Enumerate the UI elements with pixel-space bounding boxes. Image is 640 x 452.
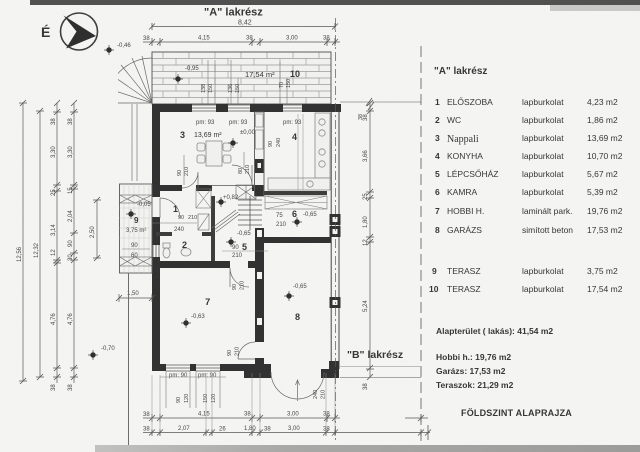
- terrace 9 outline: [120, 184, 153, 273]
- stair lower box: [198, 214, 209, 230]
- wc fixtures room2: [163, 243, 191, 258]
- wall north room3-4 segments: [152, 104, 341, 112]
- door arc room5 to room7: [230, 268, 249, 287]
- dim 2,50 left of plan: [90, 197, 101, 261]
- boundary dashed line right: [420, 46, 422, 445]
- terrace 9 hatched band bottom: [120, 257, 153, 266]
- garage door dims: [313, 390, 327, 399]
- terrace 10 area label: [245, 69, 300, 79]
- bottom dim line 2: [143, 425, 431, 440]
- top scan edge artifact: [30, 0, 640, 5]
- wall kamra-garage: [264, 237, 331, 243]
- right dim chain: [366, 100, 374, 380]
- level marker -0,95 terrace 10: [173, 66, 199, 84]
- wall room1-room5: [211, 196, 215, 261]
- kamra steps hatch: [265, 196, 327, 209]
- north arrow symbol: [61, 13, 98, 50]
- terrace 9 hatched band top: [120, 195, 153, 203]
- level marker -0,46: [104, 43, 131, 55]
- dim 1,50 under terrace 9: [116, 291, 155, 302]
- level marker room8: [284, 291, 294, 301]
- left dim chain 12,32: [36, 108, 44, 380]
- window symbols south wall: [166, 365, 220, 371]
- door dims room3 right: [238, 165, 251, 174]
- window guide lines terrace (window2): [231, 60, 238, 104]
- window symbols north wall: [192, 105, 302, 111]
- level marker room7: [181, 318, 191, 328]
- wall room1-room2: [156, 232, 212, 236]
- dim line 38/4,15/38/3,00/38 top: [143, 38, 340, 46]
- door 7-8 dims: [227, 347, 241, 356]
- door room7-room8: [238, 342, 255, 359]
- drawing title: [461, 408, 572, 418]
- bottom scan edge artifact: [95, 445, 640, 452]
- level marker room5 lower: [226, 237, 236, 247]
- wall kitchen-kamra: [264, 191, 327, 195]
- dim line 240 room1: [152, 222, 197, 224]
- partition room7-room8: [244, 228, 271, 378]
- level marker room5 upper: [216, 197, 226, 207]
- kitchen counter room4: [268, 113, 330, 190]
- legend rows: [429, 97, 623, 294]
- column mid garage east: [330, 297, 341, 308]
- shaft wall between room3 and room4: [255, 112, 265, 196]
- door dims kitchen: [268, 138, 282, 147]
- terrace 10 brick paving: [152, 52, 331, 104]
- legend title: [434, 66, 487, 77]
- path edge line from terrace 9: [128, 273, 130, 445]
- door dims room3 left: [177, 167, 190, 176]
- guide verticals to bottom dims: [152, 373, 335, 430]
- connector line bottom right: [340, 367, 421, 378]
- east thin party wall: [331, 111, 339, 369]
- garage door center arrow: [296, 380, 300, 401]
- level marker terrace 9: [126, 209, 136, 219]
- south window guides: [160, 371, 226, 408]
- pm:90 window labels south: [169, 373, 217, 379]
- top right scan smudge: [550, 5, 640, 11]
- legend totals: [436, 326, 553, 390]
- axis line between units (dash-dot): [335, 18, 337, 443]
- west window room2: [153, 245, 159, 257]
- terrace 9 labels: [122, 202, 151, 259]
- fence line from stair to terrace 9: [132, 104, 137, 181]
- guide lines room3 doors: [184, 152, 244, 185]
- connector line top right: [340, 98, 421, 110]
- door arc room3 to room5: [232, 165, 252, 185]
- south wall segments: [152, 364, 271, 371]
- garage door opening arcs: [271, 372, 324, 399]
- entry door arc room1: [160, 198, 180, 218]
- level marker -0,70 outside: [88, 346, 115, 360]
- left dim chain segments B: [70, 100, 78, 383]
- B lakresz label: [347, 349, 403, 361]
- door arc room3 to room1: [182, 172, 198, 188]
- bottom dim line 1: [143, 414, 428, 422]
- stair dim line: [222, 250, 268, 252]
- wall rooms2,5 to room7 (H3): [152, 261, 264, 268]
- landing edge line room5: [209, 185, 252, 187]
- entry mat hatch room1: [196, 189, 211, 208]
- column sections east: [330, 214, 341, 237]
- wall room3 south (H1): [152, 185, 264, 191]
- dim line 8,42 top: [149, 23, 338, 30]
- kitchen door guide lines: [298, 114, 303, 190]
- level marker room3: [228, 138, 238, 148]
- level marker room6: [292, 217, 302, 227]
- north label E: [41, 24, 50, 40]
- east wall foot / garage door jamb: [321, 361, 339, 378]
- room interior labels: [173, 130, 317, 322]
- window guide lines terrace (window3): [280, 62, 287, 104]
- spiral stair outside top-left: [107, 56, 152, 103]
- south window dims: [176, 394, 217, 403]
- window guide lines terrace (window1): [208, 60, 215, 104]
- pm:93 window labels north: [196, 120, 302, 126]
- stair room5 treads: [238, 196, 262, 230]
- stair hatch band top: [236, 185, 256, 199]
- left dim chain segments A: [53, 100, 61, 383]
- terrace 9 tile grid: [120, 184, 153, 273]
- wall west segments: [152, 104, 160, 364]
- door dims room7 entry: [232, 281, 246, 290]
- left dim chain 12,56: [19, 100, 27, 384]
- title A lakresz: [204, 7, 263, 19]
- stair diagonal break: [212, 210, 240, 232]
- dining table room3: [197, 141, 231, 166]
